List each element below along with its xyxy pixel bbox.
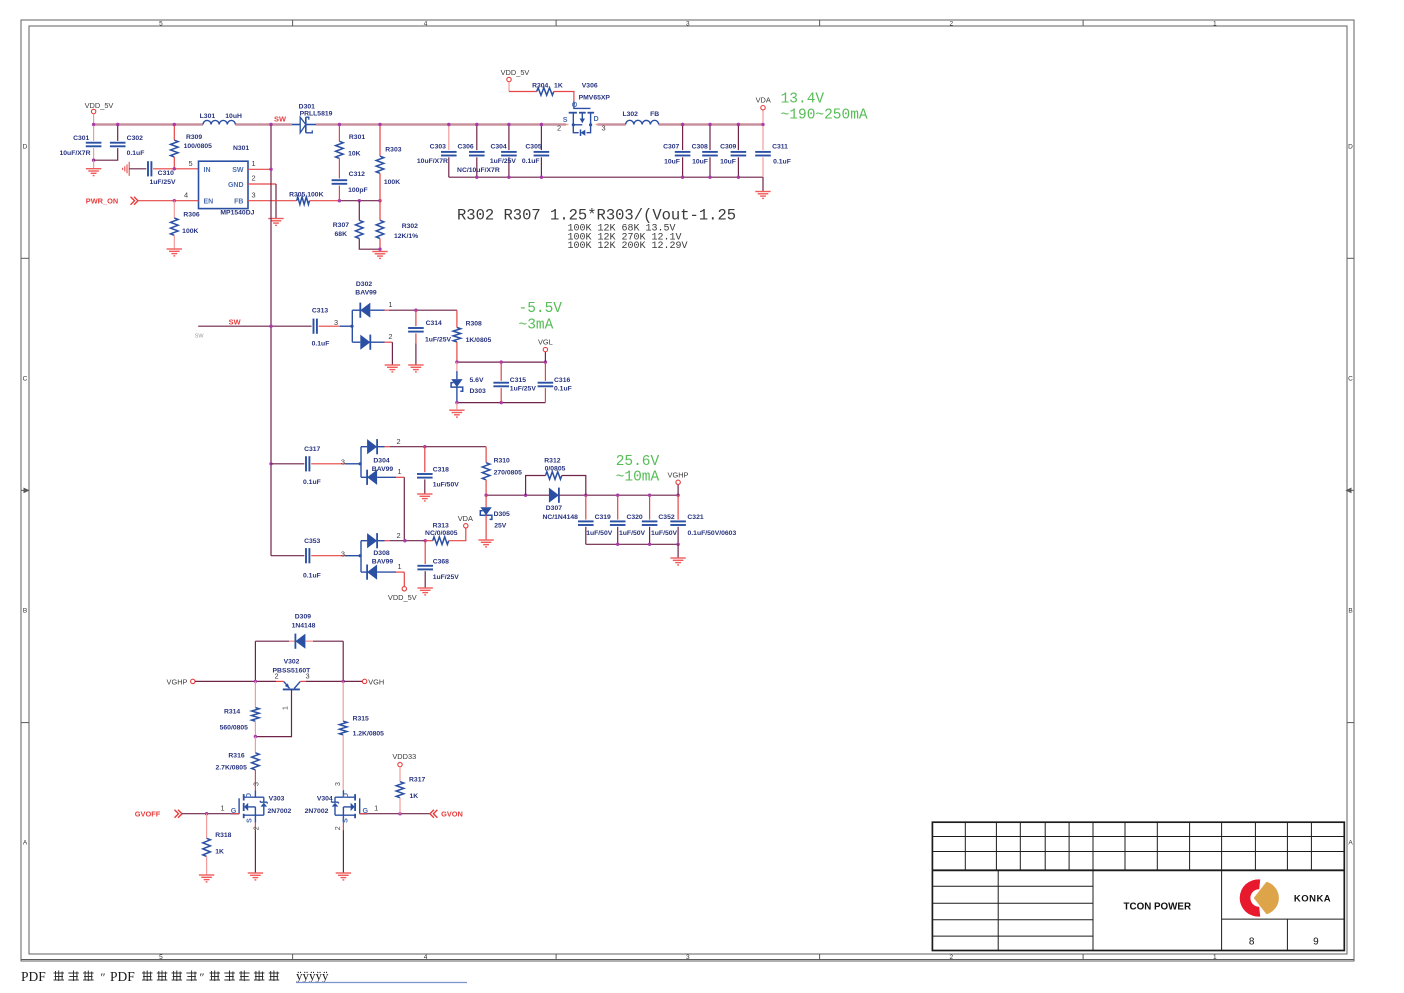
svg-text:2: 2	[949, 20, 953, 27]
svg-text:25V: 25V	[494, 523, 507, 530]
svg-text:VDD_5V: VDD_5V	[388, 593, 417, 602]
svg-text:D301: D301	[299, 103, 315, 110]
svg-text:TCON POWER: TCON POWER	[1124, 902, 1192, 913]
svg-text:C352: C352	[658, 514, 674, 521]
svg-text:D302: D302	[356, 281, 372, 288]
svg-text:PBSS5160T: PBSS5160T	[273, 668, 312, 675]
svg-text:R312: R312	[544, 458, 560, 465]
svg-text:NC/0/0805: NC/0/0805	[425, 530, 458, 537]
svg-text:0.1uF: 0.1uF	[773, 159, 791, 166]
svg-text:3: 3	[341, 549, 345, 558]
svg-text:~190~250mA: ~190~250mA	[781, 107, 868, 123]
svg-text:VGHP: VGHP	[668, 470, 689, 479]
svg-text:N301: N301	[233, 145, 249, 152]
svg-text:R308: R308	[466, 321, 482, 328]
svg-text:0.1uF: 0.1uF	[127, 150, 145, 157]
svg-text:100/0805: 100/0805	[184, 143, 213, 150]
svg-text:PWR_ON: PWR_ON	[86, 197, 118, 206]
svg-text:3: 3	[601, 124, 605, 133]
svg-text:270/0805: 270/0805	[494, 470, 523, 477]
svg-text:IN: IN	[204, 167, 211, 174]
svg-text:1K: 1K	[410, 793, 419, 800]
svg-text:560/0805: 560/0805	[220, 724, 249, 731]
svg-text:C307: C307	[663, 143, 679, 150]
svg-text:VGHP: VGHP	[167, 677, 188, 686]
svg-text:C320: C320	[626, 514, 642, 521]
svg-text:10uF: 10uF	[720, 159, 736, 166]
svg-text:4: 4	[184, 190, 188, 199]
svg-text:S: S	[246, 818, 253, 823]
svg-text:R318: R318	[215, 832, 231, 839]
svg-text:2: 2	[335, 826, 342, 830]
svg-text:0.1uF/50V/0603: 0.1uF/50V/0603	[688, 530, 737, 537]
svg-text:1.2K/0805: 1.2K/0805	[353, 730, 385, 737]
svg-text:10uF: 10uF	[664, 159, 680, 166]
svg-text:NC/1N4148: NC/1N4148	[542, 514, 578, 521]
svg-text:EN: EN	[204, 199, 214, 206]
svg-text:VDA: VDA	[458, 514, 473, 523]
svg-text:12K/1%: 12K/1%	[394, 233, 418, 240]
svg-text:1uF/25V: 1uF/25V	[149, 179, 176, 186]
svg-text:100pF: 100pF	[348, 187, 368, 194]
svg-text:10uH: 10uH	[225, 113, 242, 120]
svg-text:2: 2	[396, 437, 400, 446]
svg-text:D304: D304	[373, 458, 389, 465]
svg-text:GVOFF: GVOFF	[135, 810, 161, 819]
svg-text:VGH: VGH	[368, 677, 384, 686]
svg-text:D303: D303	[470, 388, 486, 395]
svg-text:SW: SW	[274, 115, 286, 124]
svg-text:1: 1	[398, 562, 402, 571]
svg-text:D: D	[246, 793, 253, 798]
svg-text:C318: C318	[433, 467, 449, 474]
svg-text:2: 2	[254, 826, 261, 830]
svg-text:R315: R315	[353, 716, 369, 723]
svg-text:D: D	[23, 143, 28, 150]
svg-text:R313: R313	[433, 523, 449, 530]
svg-text:1uF/50V: 1uF/50V	[619, 530, 646, 537]
svg-text:2: 2	[949, 954, 953, 961]
svg-text:FB: FB	[650, 111, 659, 118]
svg-text:C353: C353	[304, 538, 320, 545]
svg-text:R304: R304	[532, 83, 548, 90]
svg-text:1: 1	[398, 467, 402, 476]
svg-text:10K: 10K	[348, 151, 361, 158]
svg-text:5: 5	[159, 20, 163, 27]
svg-text:V302: V302	[284, 659, 300, 666]
svg-text:D309: D309	[295, 614, 311, 621]
svg-text:C321: C321	[687, 514, 703, 521]
svg-text:C315: C315	[510, 377, 526, 384]
svg-text:R316: R316	[228, 753, 244, 760]
svg-text:4: 4	[424, 954, 428, 961]
svg-text:PDF: PDF	[21, 969, 46, 984]
svg-text:0.1uF: 0.1uF	[522, 158, 540, 165]
svg-text:1: 1	[374, 804, 378, 813]
svg-text:FB: FB	[234, 199, 243, 206]
svg-text:C: C	[23, 375, 28, 382]
svg-text:R302: R302	[402, 223, 418, 230]
svg-text:5: 5	[159, 954, 163, 961]
svg-text:R307: R307	[333, 222, 349, 229]
svg-text:V304: V304	[317, 796, 333, 803]
svg-text:R303: R303	[385, 147, 401, 154]
svg-text:S: S	[563, 115, 568, 124]
svg-text:1uF/50V: 1uF/50V	[433, 482, 460, 489]
svg-text:3: 3	[254, 782, 261, 786]
svg-text:3: 3	[334, 318, 338, 327]
svg-text:D: D	[594, 114, 599, 123]
svg-text:SW: SW	[195, 334, 205, 340]
svg-text:R301: R301	[349, 134, 365, 141]
svg-text:VDD_5V: VDD_5V	[501, 68, 530, 77]
svg-text:3: 3	[686, 20, 690, 27]
svg-text:BAV99: BAV99	[372, 559, 394, 566]
svg-text:4: 4	[424, 20, 428, 27]
svg-text:PMV65XP: PMV65XP	[579, 95, 611, 102]
svg-text:13.4V: 13.4V	[781, 92, 825, 108]
svg-text:D: D	[343, 793, 350, 798]
svg-text:L302: L302	[622, 111, 638, 118]
svg-text:R305 100K: R305 100K	[289, 191, 323, 198]
svg-text:″: ″	[101, 970, 106, 984]
svg-text:C319: C319	[595, 514, 611, 521]
svg-text:C316: C316	[554, 377, 570, 384]
svg-text:R317: R317	[409, 777, 425, 784]
svg-text:1uF/25V: 1uF/25V	[510, 386, 537, 393]
svg-text:C302: C302	[127, 135, 143, 142]
svg-text:C309: C309	[720, 143, 736, 150]
svg-text:1: 1	[1213, 20, 1217, 27]
svg-text:-5.5V: -5.5V	[519, 301, 563, 317]
svg-text:5.6V: 5.6V	[470, 377, 484, 384]
svg-text:C311: C311	[772, 143, 788, 150]
svg-text:C301: C301	[73, 135, 89, 142]
svg-text:SW: SW	[229, 317, 241, 326]
svg-text:B: B	[1348, 607, 1352, 614]
svg-text:100K 12K 200K 12.29V: 100K 12K 200K 12.29V	[568, 241, 688, 252]
svg-text:9: 9	[1313, 937, 1319, 948]
svg-text:PRLL5819: PRLL5819	[300, 110, 333, 117]
svg-text:R314: R314	[224, 709, 240, 716]
svg-text:~10mA: ~10mA	[616, 470, 660, 486]
svg-text:1: 1	[283, 706, 290, 710]
svg-text:0.1uF: 0.1uF	[554, 386, 572, 393]
svg-text:C310: C310	[158, 170, 174, 177]
svg-text:1: 1	[221, 804, 225, 813]
svg-text:V303: V303	[269, 796, 285, 803]
svg-text:VGL: VGL	[538, 338, 553, 347]
svg-text:0.1uF: 0.1uF	[303, 479, 321, 486]
svg-text:1: 1	[388, 300, 392, 309]
svg-text:2: 2	[396, 531, 400, 540]
svg-text:1: 1	[1213, 954, 1217, 961]
svg-text:D: D	[1348, 143, 1353, 150]
svg-text:C304: C304	[490, 143, 506, 150]
svg-text:C308: C308	[692, 143, 708, 150]
svg-text:D305: D305	[494, 511, 510, 518]
svg-text:C305: C305	[525, 143, 541, 150]
svg-text:B: B	[23, 607, 27, 614]
svg-text:C313: C313	[312, 308, 328, 315]
svg-text:68K: 68K	[335, 231, 348, 238]
svg-text:GVON: GVON	[441, 810, 463, 819]
svg-text:3: 3	[341, 458, 345, 467]
svg-text:1K/0805: 1K/0805	[466, 337, 492, 344]
svg-text:1K: 1K	[554, 83, 563, 90]
svg-text:C317: C317	[304, 446, 320, 453]
svg-text:R302 R307 1.25*R303/(Vout-1.25: R302 R307 1.25*R303/(Vout-1.25	[457, 207, 736, 225]
svg-text:1uF/25V: 1uF/25V	[433, 574, 460, 581]
svg-text:3: 3	[251, 190, 255, 199]
svg-text:C312: C312	[349, 171, 365, 178]
svg-text:VDA: VDA	[756, 95, 771, 104]
svg-text:L301: L301	[200, 113, 216, 120]
svg-text:10uF/X7R: 10uF/X7R	[60, 150, 91, 157]
svg-text:~3mA: ~3mA	[519, 317, 554, 333]
svg-text:2N7002: 2N7002	[268, 808, 292, 815]
svg-text:A: A	[1348, 839, 1353, 846]
svg-text:1uF/50V: 1uF/50V	[651, 530, 678, 537]
svg-text:100K: 100K	[182, 228, 198, 235]
svg-text:2: 2	[251, 174, 255, 183]
svg-text:VDD_5V: VDD_5V	[85, 101, 114, 110]
svg-text:2.7K/0805: 2.7K/0805	[216, 765, 248, 772]
svg-text:10uF: 10uF	[692, 159, 708, 166]
svg-text:100K: 100K	[384, 179, 400, 186]
svg-text:25.6V: 25.6V	[616, 454, 660, 470]
svg-text:G: G	[572, 101, 579, 107]
svg-text:2: 2	[388, 332, 392, 341]
svg-text:V306: V306	[582, 83, 598, 90]
svg-text:C306: C306	[457, 143, 473, 150]
svg-text:3: 3	[335, 782, 342, 786]
svg-text:R310: R310	[494, 458, 510, 465]
svg-text:C303: C303	[430, 143, 446, 150]
svg-text:R306: R306	[183, 212, 199, 219]
svg-text:BAV99: BAV99	[355, 290, 377, 297]
svg-text:10uF/X7R: 10uF/X7R	[417, 158, 448, 165]
svg-text:1K: 1K	[215, 849, 224, 856]
svg-text:C314: C314	[426, 320, 442, 327]
svg-text:C368: C368	[433, 559, 449, 566]
svg-text:A: A	[23, 839, 28, 846]
svg-text:KONKA: KONKA	[1294, 894, 1331, 905]
svg-text:NC/10uF/X7R: NC/10uF/X7R	[457, 167, 500, 174]
svg-text:1uF/25V: 1uF/25V	[425, 336, 452, 343]
svg-text:5: 5	[188, 159, 192, 168]
svg-text:1: 1	[251, 159, 255, 168]
svg-text:1uF/25V: 1uF/25V	[490, 158, 517, 165]
svg-text:MP1540DJ: MP1540DJ	[220, 209, 254, 216]
svg-text:″: ″	[200, 970, 205, 984]
svg-text:3: 3	[686, 954, 690, 961]
svg-text:2: 2	[557, 124, 561, 133]
svg-text:PDF: PDF	[110, 969, 135, 984]
svg-text:0.1uF: 0.1uF	[303, 572, 321, 579]
svg-text:C: C	[1348, 375, 1353, 382]
svg-text:1N4148: 1N4148	[292, 623, 316, 630]
svg-text:0.1uF: 0.1uF	[312, 341, 330, 348]
svg-text:GND: GND	[228, 182, 244, 189]
svg-text:D307: D307	[546, 505, 562, 512]
svg-text:0/0805: 0/0805	[545, 465, 566, 472]
svg-text:ÿÿÿÿÿ: ÿÿÿÿÿ	[296, 968, 329, 983]
svg-text:1uF/50V: 1uF/50V	[586, 530, 613, 537]
svg-text:S: S	[342, 818, 349, 823]
svg-text:8: 8	[1249, 937, 1255, 948]
svg-text:R309: R309	[186, 134, 202, 141]
svg-text:D308: D308	[373, 550, 389, 557]
svg-text:2N7002: 2N7002	[305, 808, 329, 815]
svg-text:SW: SW	[232, 167, 244, 174]
svg-text:VDD33: VDD33	[392, 752, 416, 761]
